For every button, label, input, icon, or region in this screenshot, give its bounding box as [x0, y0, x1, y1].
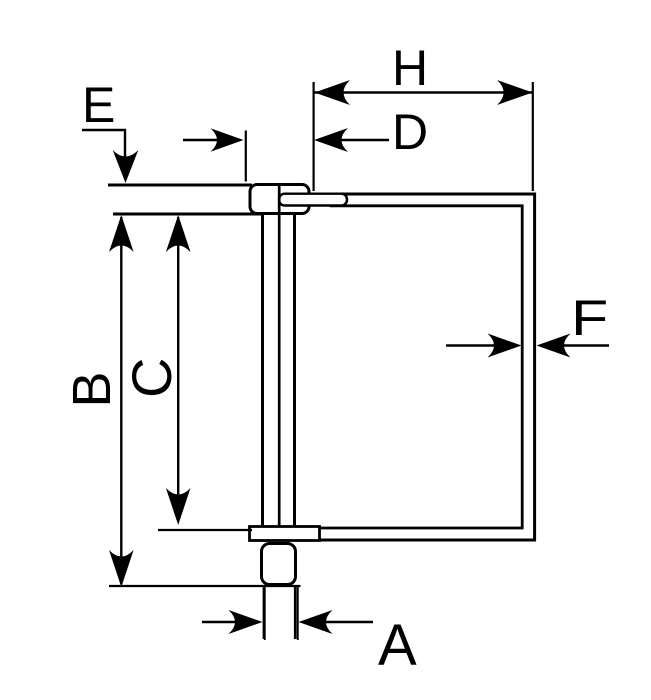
B bottom leader line — [109, 585, 301, 587]
H left arrow — [315, 80, 351, 105]
bail inner outline — [319, 206, 522, 528]
F left arrow (points right) — [488, 334, 522, 358]
D arrow (left) — [314, 128, 348, 152]
extension line at head left — [245, 131, 247, 182]
detent knob (rounded) — [262, 544, 296, 585]
bottom stub left edge — [263, 585, 266, 639]
A right arrow line — [320, 621, 373, 623]
F right arrow (points left) — [537, 334, 571, 358]
collar plate — [250, 527, 320, 541]
A left arrow line — [202, 621, 240, 623]
F left arrow line — [446, 344, 500, 346]
bail outer outline: top edge, right edge, bottom edge — [320, 194, 535, 540]
svg-text:D: D — [392, 104, 428, 160]
H right extension line — [532, 82, 534, 191]
A left extension line — [264, 587, 266, 640]
A left arrow (points right) — [229, 610, 263, 634]
wire: pin top bar (E bar) top edge — [108, 184, 252, 187]
C bottom arrow (down) — [166, 488, 191, 525]
E arrow (down) — [113, 150, 139, 183]
F right arrow line — [558, 344, 609, 346]
shaft right edge — [293, 213, 296, 527]
H left extension line — [313, 82, 315, 191]
B top arrow (up) — [109, 215, 134, 252]
A right arrow (points left) — [299, 610, 333, 634]
H right arrow — [497, 80, 532, 105]
C dimension line — [177, 217, 179, 521]
svg-text:F: F — [571, 290, 608, 346]
D dimension line — [339, 139, 389, 141]
small arrow pointing right at head (D pair) — [183, 139, 225, 141]
bottom stub right edge — [294, 585, 297, 639]
B dimension line — [120, 217, 122, 584]
svg-text:A: A — [378, 613, 417, 678]
A right extension line — [297, 587, 299, 640]
pin head (rounded) — [250, 185, 309, 214]
svg-text:B: B — [62, 371, 122, 407]
B bottom arrow (down) — [109, 550, 134, 587]
H dimension line — [314, 91, 533, 93]
shaft middle line / head divider — [278, 185, 281, 527]
bail top-left cap over head — [279, 194, 347, 206]
C top arrow (up) — [166, 215, 191, 252]
svg-text:H: H — [392, 40, 428, 96]
shaft left edge — [261, 213, 264, 527]
E leader line — [82, 130, 125, 162]
svg-text:C: C — [120, 358, 183, 398]
wire: pin top bar bottom edge — [113, 213, 262, 216]
svg-text:E: E — [82, 77, 115, 133]
C bottom leader line — [158, 529, 252, 531]
